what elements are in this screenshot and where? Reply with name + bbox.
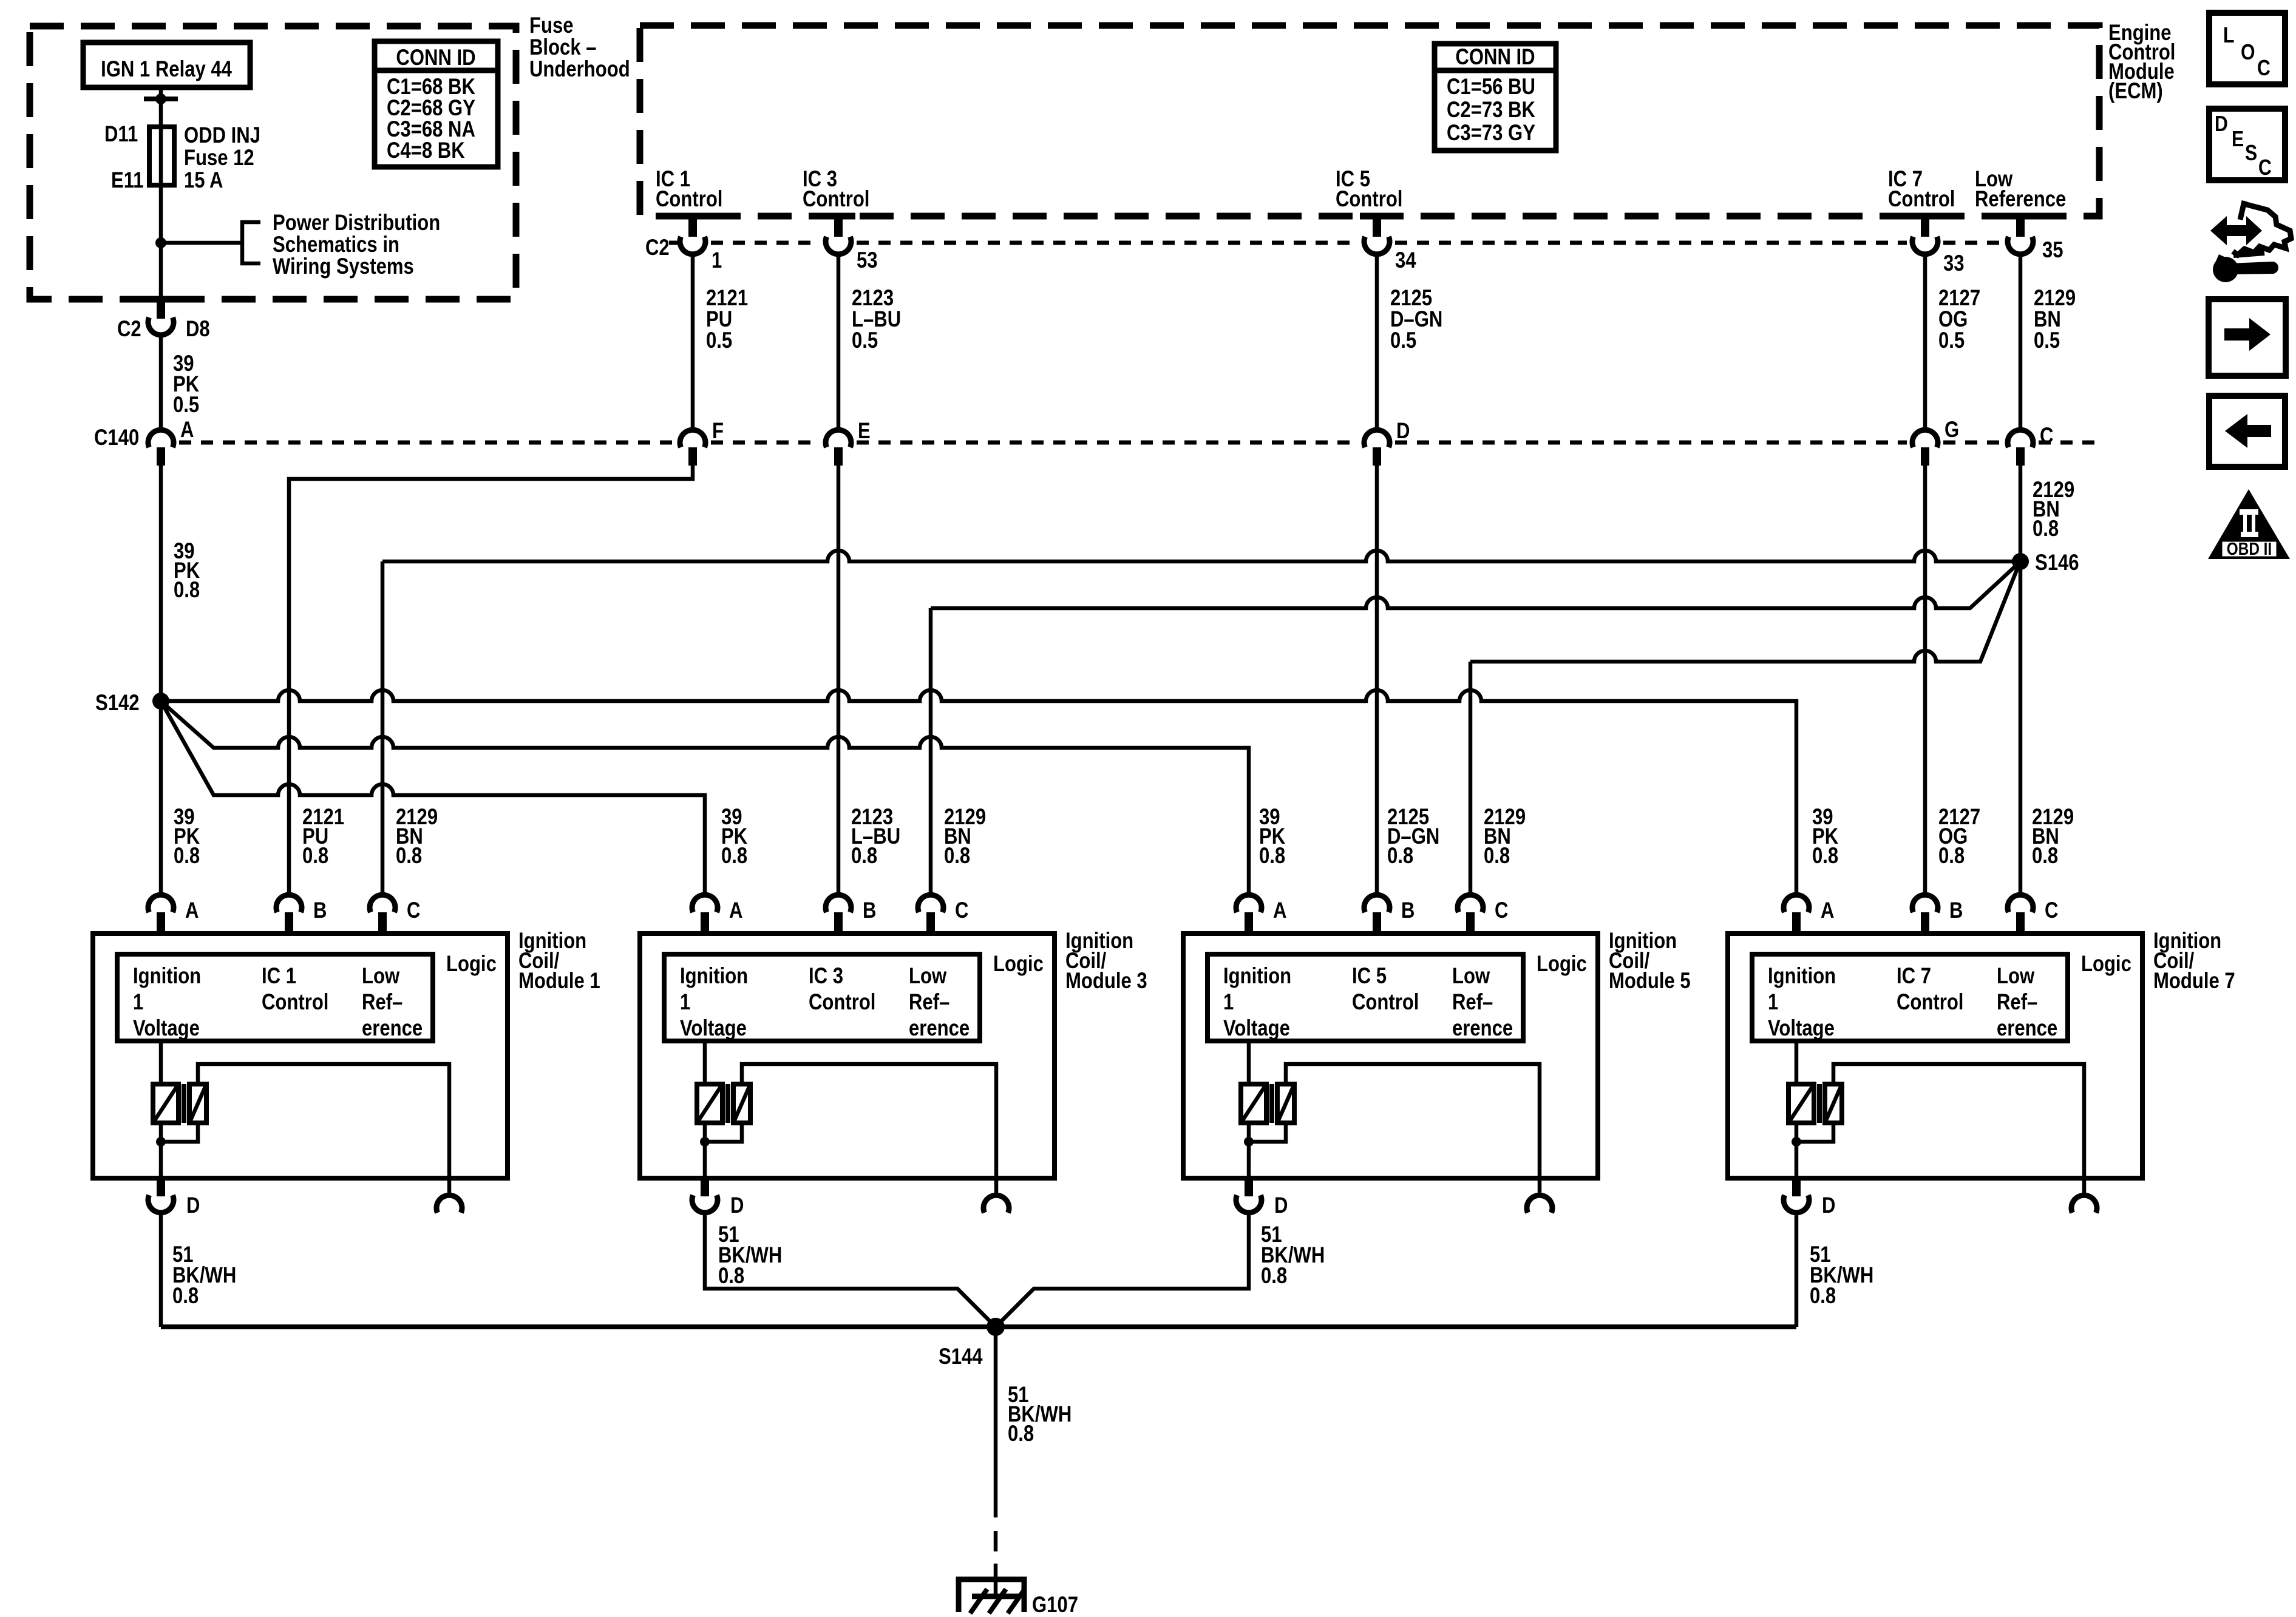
svg-text:Control: Control (1888, 187, 1955, 212)
module 3 pin D stub (701, 1178, 709, 1196)
svg-text:E11: E11 (111, 168, 144, 193)
svg-text:0.5: 0.5 (852, 328, 878, 353)
module 7 pin D stub (1792, 1178, 1801, 1196)
svg-text:C140: C140 (94, 425, 139, 450)
fuse F12: ODD INJ Fuse 12 15A (149, 127, 174, 185)
svg-text:D: D (1396, 419, 1410, 444)
svg-text:0.5: 0.5 (2034, 328, 2060, 353)
connector C140 pin E (826, 430, 851, 447)
svg-text:B: B (313, 898, 327, 923)
svg-text:Control: Control (809, 990, 875, 1015)
svg-text:B: B (1401, 898, 1415, 923)
connector id table (ECM) (1435, 44, 1556, 151)
module 5 spare pin (1527, 1195, 1552, 1213)
svg-text:erence: erence (909, 1016, 970, 1041)
svg-text:C1=56 BU: C1=56 BU (1447, 75, 1535, 100)
svg-text:D: D (186, 1193, 200, 1218)
svg-text:Logic: Logic (1537, 952, 1587, 977)
coil 7 secondary winding (1825, 1084, 1842, 1123)
coil 1 primary winding (153, 1084, 178, 1123)
icon DESC (2209, 109, 2285, 180)
junction dot relay output (155, 93, 166, 104)
svg-text:ODD INJ: ODD INJ (184, 123, 260, 148)
svg-text:0.8: 0.8 (174, 578, 200, 603)
svg-text:Module 3: Module 3 (1065, 969, 1147, 994)
junction dot coil common (156, 1137, 166, 1147)
wire relay output (159, 87, 163, 127)
svg-text:C: C (2045, 898, 2058, 923)
wire 2127 OG 0.5 (IC 7 control) (1923, 254, 1927, 430)
svg-text:1: 1 (133, 990, 143, 1015)
svg-text:S146: S146 (2035, 551, 2079, 575)
icon back arrow (2209, 396, 2285, 467)
module 7 spare pin (2071, 1195, 2097, 1213)
svg-text:IC 5: IC 5 (1352, 964, 1387, 989)
ignition coil module 5 pins A B C (1236, 895, 1262, 912)
ground G107 (959, 1579, 1024, 1612)
svg-text:G107: G107 (1032, 1593, 1078, 1617)
svg-text:erence: erence (362, 1016, 423, 1041)
svg-text:F: F (712, 419, 724, 444)
svg-text:0.8: 0.8 (1261, 1264, 1287, 1289)
wire 2123 L-BU 0.8 C140-E to module 3 pin B (837, 466, 841, 895)
svg-text:D: D (1274, 1193, 1288, 1218)
svg-text:CONN ID: CONN ID (396, 46, 475, 70)
coil 5 secondary winding (1277, 1084, 1294, 1123)
ECM pin 35 stub (2003, 213, 2037, 220)
wire fuse to connector C2/D8 (159, 185, 163, 299)
svg-text:Logic: Logic (2081, 952, 2131, 977)
coil bottom wires (161, 1123, 198, 1142)
svg-text:Underhood: Underhood (529, 57, 630, 82)
connector id table (fuse block) (375, 41, 498, 167)
svg-text:Module 5: Module 5 (1609, 969, 1691, 994)
svg-text:IC 3: IC 3 (809, 964, 843, 989)
coil secondary output wire (1833, 1064, 2084, 1195)
connector pin D (148, 1195, 174, 1213)
svg-text:0.8: 0.8 (1484, 844, 1510, 869)
coil secondary output wire (1286, 1064, 1540, 1195)
svg-text:0.8: 0.8 (396, 844, 422, 869)
wire 2129 BN 0.5 (low reference) (2019, 254, 2023, 430)
wire module 1 pin C vertical (381, 561, 385, 895)
svg-text:Logic: Logic (446, 952, 497, 977)
svg-text:0.8: 0.8 (1812, 844, 1838, 869)
module 7 terminal block (1752, 954, 2068, 1041)
svg-text:Low: Low (1997, 964, 2035, 989)
svg-text:C2: C2 (645, 236, 670, 260)
svg-text:Module 7: Module 7 (2153, 969, 2235, 994)
wire 2123 L-BU 0.5 (IC 3 control) (837, 254, 841, 430)
ignition coil module 7 pins A B C (1784, 895, 1809, 912)
ignition coil module 3 pins A B C (692, 895, 718, 912)
svg-text:IC 7: IC 7 (1897, 964, 1931, 989)
svg-text:erence: erence (1997, 1016, 2057, 1041)
svg-text:C: C (955, 898, 968, 923)
splice S142 (152, 693, 169, 710)
svg-text:B: B (863, 898, 876, 923)
svg-text:Control: Control (1336, 187, 1402, 212)
ECM connector C2 dotted line (669, 241, 678, 245)
ECM connector pin 34 (1364, 237, 1390, 254)
svg-text:A: A (180, 418, 194, 442)
svg-text:IGN 1 Relay 44: IGN 1 Relay 44 (101, 57, 232, 82)
svg-text:0.8: 0.8 (851, 844, 877, 869)
svg-text:D: D (2215, 112, 2228, 137)
icon diagnostic outline (2233, 201, 2291, 255)
svg-text:S144: S144 (939, 1344, 983, 1369)
svg-text:1: 1 (1223, 990, 1234, 1015)
wire to coil primary (159, 1041, 163, 1084)
svg-text:15 A: 15 A (184, 168, 223, 193)
wire S146 to module 7 pin C (2019, 569, 2023, 895)
coil 5 primary winding (1241, 1084, 1266, 1123)
ECM pin 33 stub (1908, 213, 1942, 220)
reference bracket (242, 222, 260, 263)
relay terminal bar (144, 97, 178, 101)
relay K: IGN 1 Relay 44 box (83, 42, 250, 87)
junction dot power distribution tap (155, 237, 166, 248)
wire 2121 PU 0.8 C140-F to module 1 pin B (289, 466, 693, 895)
fuse block underhood dashed outline (30, 26, 516, 299)
wire to coil primary (1247, 1041, 1251, 1084)
svg-text:Wiring Systems: Wiring Systems (273, 254, 414, 279)
svg-text:B: B (1949, 898, 1963, 923)
icon diagnostic double arrow (2210, 216, 2262, 245)
svg-text:OBD II: OBD II (2227, 539, 2272, 558)
svg-text:Low: Low (1452, 964, 1490, 989)
wire module 3 pin C vertical (929, 608, 933, 895)
ECM connector pin 35 (2008, 237, 2033, 254)
svg-text:1: 1 (712, 248, 722, 273)
wire 2125 D-GN 0.8 C140-D to module 5 pin B (1375, 466, 1379, 895)
svg-text:C: C (1495, 898, 1508, 923)
svg-text:0.5: 0.5 (1390, 328, 1416, 353)
wire 2129 BN 0.8 C140-C to S146 (2019, 466, 2023, 554)
wire 51 BK/WH module 5 pin D to S144 (996, 1213, 1249, 1327)
svg-text:S: S (2245, 141, 2257, 166)
svg-text:53: 53 (857, 248, 878, 273)
svg-text:0.8: 0.8 (944, 844, 970, 869)
svg-text:D8: D8 (186, 317, 210, 342)
wire 2127 OG 0.8 C140-G to module 7 pin B (1923, 466, 1927, 895)
wire 2125 D-GN 0.5 (IC 5 control) (1375, 254, 1379, 430)
coil 3 primary winding (697, 1084, 722, 1123)
ignition coil module 1 pins A B C (148, 895, 174, 912)
svg-text:Reference: Reference (1975, 187, 2066, 212)
svg-text:A: A (1821, 898, 1834, 923)
wire low reference module 3 (rail to S146) (931, 563, 2019, 608)
svg-text:Low: Low (362, 964, 400, 989)
ignition coil module 1 box (93, 934, 508, 1178)
module 3 spare pin (983, 1195, 1009, 1213)
svg-text:Voltage: Voltage (133, 1016, 200, 1041)
svg-text:Fuse: Fuse (529, 13, 574, 38)
coil 3 core (725, 1084, 730, 1123)
coil bottom wires (705, 1123, 742, 1142)
svg-text:CONN ID: CONN ID (1455, 45, 1535, 70)
svg-text:0.8: 0.8 (1810, 1284, 1836, 1309)
svg-text:0.8: 0.8 (172, 1284, 199, 1309)
svg-text:C: C (2257, 56, 2271, 81)
module 5 pin D stub (1245, 1178, 1253, 1196)
coil 5 core (1269, 1084, 1274, 1123)
ECM pin 53 stub (821, 213, 855, 220)
wire to coil primary (1795, 1041, 1799, 1084)
wire low reference module 1 (rail to S146) (382, 551, 2013, 561)
svg-text:0.8: 0.8 (2033, 517, 2059, 541)
wire 51 BK/WH module 3 pin D to S144 (705, 1213, 996, 1327)
svg-text:IC 1: IC 1 (262, 964, 296, 989)
module 1 spare pin (436, 1195, 462, 1213)
svg-text:C: C (2040, 424, 2053, 449)
svg-text:Schematics in: Schematics in (273, 232, 399, 257)
svg-text:Ref–: Ref– (1452, 990, 1493, 1015)
wire 39 PK 0.8 S142 to module 7 pin A (161, 690, 1796, 895)
icon OBD II triangle (2208, 489, 2290, 559)
coil 3 secondary winding (733, 1084, 750, 1123)
wire tap to reference bracket (161, 241, 242, 245)
wire 39 PK to C140 (159, 335, 163, 430)
svg-text:0.5: 0.5 (1938, 328, 1965, 353)
svg-text:0.8: 0.8 (718, 1264, 744, 1289)
ignition coil module 3 box (640, 934, 1055, 1178)
svg-text:Control: Control (803, 187, 869, 212)
svg-text:A: A (185, 898, 199, 923)
wire low reference module 5 (rail to S146) (1470, 564, 2019, 662)
coil 7 primary winding (1788, 1084, 1814, 1123)
svg-text:1: 1 (680, 990, 690, 1015)
svg-text:E: E (858, 419, 871, 444)
ECM pin 34 stub (1360, 213, 1394, 220)
svg-text:L: L (2223, 24, 2234, 48)
connector C2 pin D8 (148, 317, 174, 335)
wire S144 to ground (994, 1327, 998, 1517)
svg-text:0.8: 0.8 (174, 844, 200, 869)
wire 2121 PU 0.5 (IC 1 control) (691, 254, 695, 430)
svg-text:0.8: 0.8 (2032, 844, 2058, 869)
module 1 pin D stub (157, 1178, 165, 1196)
svg-text:0.5: 0.5 (173, 393, 199, 418)
svg-text:C2: C2 (117, 317, 141, 342)
connector pin D (692, 1195, 718, 1213)
ECM connector pin 1 (680, 237, 705, 254)
connector C140 pin A (148, 430, 174, 447)
junction dot coil common (1792, 1137, 1801, 1147)
ECM connector pin 53 (826, 237, 851, 254)
svg-text:Block –: Block – (529, 35, 597, 60)
svg-text:A: A (729, 898, 742, 923)
svg-text:0.8: 0.8 (302, 844, 328, 869)
connector pin D (1236, 1195, 1262, 1213)
wire S142 to module 1 pin A (159, 706, 163, 895)
wire 51 BK/WH module 1 pin D to bus (159, 1213, 163, 1327)
ECM connector pin 33 (1912, 237, 1938, 254)
svg-text:Power Distribution: Power Distribution (273, 211, 440, 236)
svg-text:Ref–: Ref– (909, 990, 949, 1015)
icon LOC (2209, 13, 2285, 84)
svg-text:C: C (2258, 156, 2272, 180)
svg-text:C3=73 GY: C3=73 GY (1447, 121, 1535, 146)
svg-text:Control: Control (1897, 990, 1963, 1015)
svg-text:33: 33 (1943, 251, 1965, 276)
svg-text:0.8: 0.8 (1387, 844, 1413, 869)
svg-text:Voltage: Voltage (680, 1016, 747, 1041)
coil 7 core (1817, 1084, 1822, 1123)
connector C140 pin G (1912, 430, 1938, 447)
connector C140 pin C (2008, 430, 2033, 447)
svg-text:Control: Control (1352, 990, 1419, 1015)
svg-text:Low: Low (909, 964, 947, 989)
coil 1 secondary winding (189, 1084, 206, 1123)
coil bottom wires (1796, 1123, 1833, 1142)
module 3 terminal block (664, 954, 980, 1041)
svg-text:Module 1: Module 1 (518, 969, 600, 994)
svg-text:D: D (730, 1193, 744, 1218)
coil 1 core (182, 1084, 186, 1123)
svg-text:A: A (1273, 898, 1286, 923)
svg-text:Ignition: Ignition (1223, 964, 1291, 989)
svg-text:D: D (1822, 1193, 1835, 1218)
svg-text:Ignition: Ignition (1768, 964, 1836, 989)
svg-text:Logic: Logic (993, 952, 1044, 977)
module 5 terminal block (1207, 954, 1523, 1041)
svg-text:(ECM): (ECM) (2108, 79, 2163, 104)
ignition coil module 7 box (1728, 934, 2142, 1178)
connector C2/D8 stub (144, 296, 178, 303)
svg-text:G: G (1944, 418, 1959, 442)
connector pin D (1784, 1195, 1809, 1213)
svg-text:S142: S142 (95, 691, 140, 716)
wire 39 PK 0.8 S142 to module 3 pin A (161, 701, 705, 895)
connector C140 pin D (1364, 430, 1390, 447)
svg-text:34: 34 (1395, 248, 1416, 273)
junction dot coil common (1244, 1137, 1254, 1147)
svg-text:D11: D11 (104, 122, 138, 147)
svg-text:1: 1 (1768, 990, 1778, 1015)
wire module 5 pin C vertical (1469, 662, 1473, 895)
splice S146 (2012, 553, 2029, 570)
connector C140 dotted line (179, 441, 674, 445)
wire to coil primary (703, 1041, 707, 1084)
svg-text:Voltage: Voltage (1223, 1016, 1290, 1041)
svg-text:Fuse 12: Fuse 12 (184, 146, 254, 171)
svg-text:Voltage: Voltage (1768, 1016, 1835, 1041)
icon wrench (2213, 257, 2238, 282)
splice S144 (987, 1318, 1005, 1336)
ignition coil module 5 box (1183, 934, 1598, 1178)
ground bus 51 BK/WH (161, 1324, 1796, 1329)
svg-text:erence: erence (1452, 1016, 1513, 1041)
coil bottom wires (1249, 1123, 1286, 1142)
wire 39 PK 0.8 S142 to module 5 pin A (161, 701, 1249, 895)
wire 39 PK 0.8 C140-A to S142 (159, 466, 163, 696)
junction dot coil common (700, 1137, 710, 1147)
wire 51 BK/WH module 7 pin D to bus (1795, 1213, 1799, 1327)
svg-text:C4=8 BK: C4=8 BK (387, 138, 465, 163)
svg-text:Ignition: Ignition (680, 964, 748, 989)
svg-text:C: C (407, 898, 420, 923)
svg-text:C2=73 BK: C2=73 BK (1447, 98, 1535, 123)
svg-text:E: E (2232, 127, 2244, 152)
svg-text:Ignition: Ignition (133, 964, 201, 989)
module 1 terminal block (117, 954, 433, 1041)
icon forward arrow (2209, 299, 2286, 376)
svg-text:O: O (2241, 41, 2255, 65)
ECM pin 1 stub (676, 213, 710, 220)
coil secondary output wire (742, 1064, 996, 1195)
svg-text:0.8: 0.8 (1259, 844, 1285, 869)
svg-text:0.8: 0.8 (1938, 844, 1965, 869)
svg-text:Control: Control (656, 187, 722, 212)
coil secondary output wire (198, 1064, 449, 1195)
svg-text:0.5: 0.5 (706, 328, 732, 353)
svg-text:0.8: 0.8 (1008, 1422, 1034, 1446)
connector C140 pin F (680, 430, 705, 447)
svg-text:Ref–: Ref– (1997, 990, 2037, 1015)
svg-text:0.8: 0.8 (721, 844, 747, 869)
svg-text:35: 35 (2042, 238, 2063, 263)
ECM dashed outline (640, 25, 2099, 216)
svg-text:Control: Control (262, 990, 328, 1015)
svg-text:Ref–: Ref– (362, 990, 402, 1015)
